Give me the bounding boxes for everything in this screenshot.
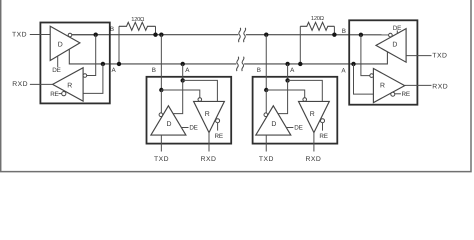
svg-text:DE: DE [189, 125, 197, 132]
junction RT1-B [153, 33, 157, 37]
resistor RT1 120 ohm termination (left), left lead to A [118, 26, 120, 64]
svg-text:A: A [185, 67, 190, 74]
receiver U1 inverting input bubble [83, 74, 87, 78]
resistor RT2 right lead to B [333, 26, 335, 34]
transceiver U4 enclosure box (right) [349, 20, 417, 104]
wire A down to U2 driver output stub [173, 80, 183, 113]
transceiver U1 enclosure box (left) [40, 23, 109, 104]
svg-text:DE: DE [52, 67, 60, 74]
wire RXD stub (U3) [313, 133, 315, 152]
wire RE bubble stub (U3) [322, 123, 324, 131]
enable stub DE (U4) [396, 30, 398, 33]
svg-text:B: B [152, 67, 156, 74]
wire bus A stub down into U2 [182, 64, 184, 80]
wire RE bubble stub (U2) [217, 123, 219, 131]
wire node A down to U1 receiver noninverting input [83, 64, 103, 93]
svg-text:D: D [58, 42, 63, 49]
wire node A down to U4 receiver noninverting input [354, 64, 374, 94]
receiver R of U4 (points right) [373, 69, 404, 103]
driver D of U4 (points left) [376, 29, 406, 63]
junction bus A to U3 stub [285, 62, 289, 66]
svg-text:A: A [111, 67, 116, 74]
wire TXD input to U4 driver [406, 55, 431, 57]
outer figure frame (left/bottom/right border) [1, 0, 471, 172]
svg-text:TXD: TXD [12, 31, 27, 38]
bus break symbol on line A [236, 57, 238, 71]
bus break symbol on line B [238, 28, 240, 42]
receiver enable bubble (U4) [391, 92, 395, 96]
svg-text:RE: RE [215, 133, 223, 140]
svg-text:D: D [167, 121, 172, 128]
svg-text:B: B [110, 26, 114, 33]
wire TXD stub (U3) [265, 135, 267, 151]
junction bus A to U2 stub [181, 62, 185, 66]
receiver enable bubble (U1) [62, 92, 66, 96]
wire A down to U3 driver output stub [278, 80, 288, 113]
junction RT2-B [332, 33, 336, 37]
transceiver U2 enclosure box [147, 77, 232, 144]
wire B down to U2 driver bubble [160, 90, 162, 113]
svg-text:D: D [392, 42, 397, 49]
receiver enable bubble (U3) [321, 119, 325, 123]
junction bus B to U2 stub [159, 33, 163, 37]
wire bubble to RE label (U4) [395, 93, 401, 95]
junction RT1-A [117, 62, 121, 66]
junction U3 B branch [264, 88, 268, 92]
wire A branch to U3 receiver noninverting input [288, 80, 323, 101]
wire A branch to U2 receiver noninverting input [183, 80, 218, 101]
wire B branch to U3 receiver inverting bubble [266, 90, 304, 98]
svg-text:120Ω: 120Ω [311, 15, 325, 22]
wire bus B stub down into U3 [265, 35, 267, 90]
junction RT2-A [298, 62, 302, 66]
svg-text:TXD: TXD [154, 156, 169, 163]
enable wire DE (U3) [286, 127, 293, 129]
receiver R of U1 [53, 68, 84, 101]
svg-text:RXD: RXD [305, 156, 321, 163]
wire bus A stub down into U3 [287, 64, 289, 80]
receiver enable bubble (U2) [216, 119, 220, 123]
svg-text:R: R [310, 111, 315, 118]
driver D of U1 [50, 26, 80, 60]
enable wire DE (U2) [181, 127, 188, 129]
svg-text:TXD: TXD [432, 53, 447, 60]
receiver U2 inverting input bubble [198, 98, 202, 102]
svg-text:RE: RE [319, 133, 327, 140]
resistor RT1 right lead to B [155, 26, 157, 34]
receiver U3 inverting input bubble [303, 98, 307, 102]
driver D of U2 (points up) [151, 106, 186, 135]
wire: bus line B (left segment, from U1 driver bubble to break) [72, 34, 239, 36]
svg-text:A: A [341, 67, 346, 74]
wire U4 receiver output to RXD [405, 84, 432, 86]
junction U1 B branch [94, 33, 98, 37]
wire RXD stub (U2) [208, 133, 210, 152]
junction bus B to U3 stub [264, 33, 268, 37]
driver D of U3 (points up) [256, 106, 291, 135]
wire RE to bubble (U1) [59, 93, 62, 95]
wire: bus line B (right segment, from break to U4 driver bubble) [246, 34, 389, 36]
svg-text:RXD: RXD [12, 81, 28, 88]
wire node B down to U4 receiver inverting input [361, 35, 370, 76]
junction U2 A branch [181, 78, 185, 82]
svg-text:R: R [67, 83, 72, 90]
wire B down to U3 driver bubble [265, 90, 267, 113]
junction U2 B branch [159, 88, 163, 92]
svg-text:RXD: RXD [201, 156, 217, 163]
svg-text:DE: DE [294, 125, 302, 132]
resistor RT1 body [119, 22, 156, 30]
svg-text:RE: RE [402, 91, 410, 98]
junction U4 B branch [359, 33, 363, 37]
svg-text:A: A [290, 67, 295, 74]
resistor RT2 body [300, 22, 334, 30]
svg-text:B: B [257, 67, 261, 74]
transceiver U3 enclosure box [253, 77, 338, 144]
wire: bus line A (right segment, from break to U4 driver stub) [244, 52, 387, 64]
wire B branch to U2 receiver inverting bubble [161, 90, 199, 98]
wire U1 receiver output to RXD [30, 83, 53, 85]
svg-text:RXD: RXD [432, 84, 448, 91]
junction U3 A branch [285, 78, 289, 82]
driver U2 inverting output bubble [159, 113, 163, 117]
svg-text:B: B [342, 28, 346, 35]
wire TXD stub (U2) [160, 135, 162, 151]
receiver R of U3 (points down) [299, 101, 330, 132]
svg-text:RE: RE [50, 91, 58, 98]
driver U4 inverting output bubble [389, 33, 393, 37]
wire TXD input to U1 driver [30, 34, 50, 36]
svg-text:120Ω: 120Ω [131, 16, 145, 23]
svg-text:TXD: TXD [259, 156, 274, 163]
receiver U4 inverting input bubble [370, 74, 374, 78]
wire node B down to U1 receiver inverting input [87, 35, 96, 76]
svg-text:R: R [205, 111, 210, 118]
svg-text:D: D [271, 121, 276, 128]
enable stub DE (U1) [57, 56, 59, 67]
wire U1 driver bubble to node B [72, 34, 96, 36]
wire: bus line A (left segment, from U1 driver stub to break) [69, 49, 236, 64]
svg-text:DE: DE [393, 25, 401, 32]
svg-text:R: R [380, 82, 385, 89]
junction U1 A branch [101, 62, 105, 66]
wire bus B stub down into U2 [160, 35, 162, 90]
junction U4 A branch [351, 62, 355, 66]
resistor RT2 120 ohm termination (right), left lead to A [299, 26, 301, 64]
driver U1 inverting output bubble [68, 33, 72, 37]
receiver R of U2 (points down) [194, 101, 225, 132]
driver U3 inverting output bubble [264, 113, 268, 117]
